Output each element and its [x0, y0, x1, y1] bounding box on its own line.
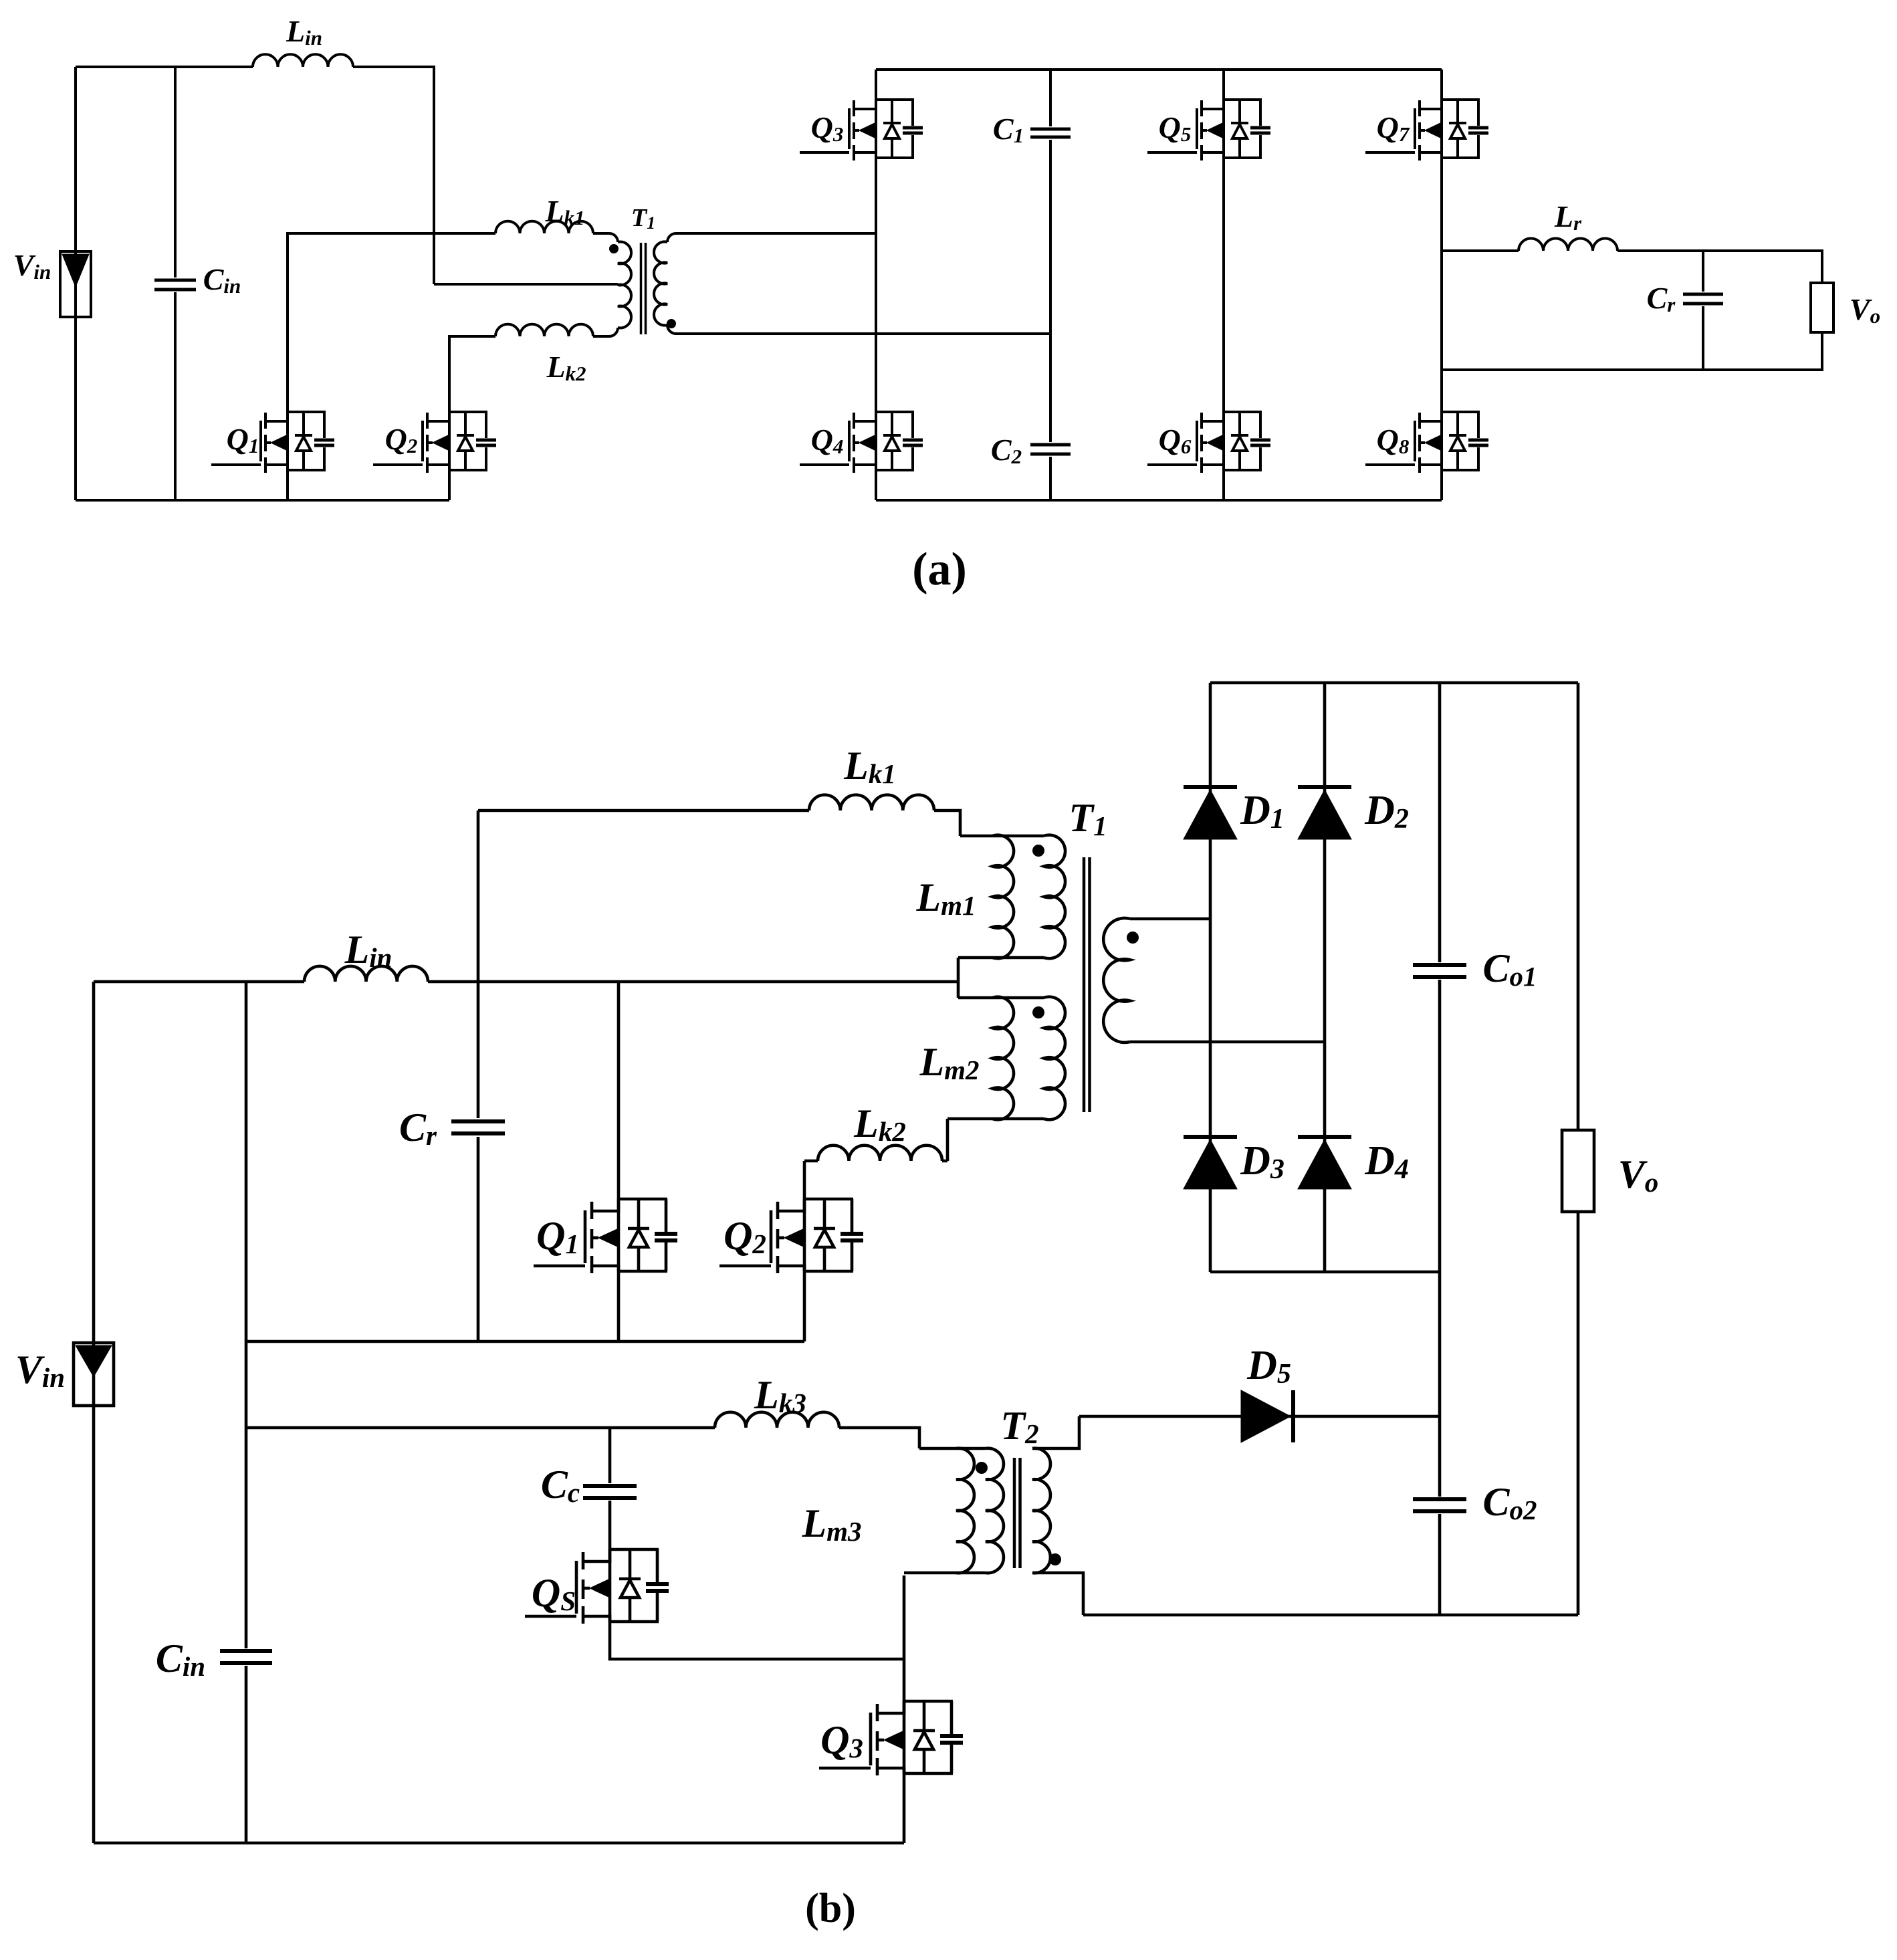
wire Vin left vertical (b) [92, 982, 96, 1343]
inductor Lr (a) [1519, 239, 1617, 251]
wire Lk2 to Q2 drain (b) [804, 1160, 818, 1163]
transistor Q3 (b) [819, 1767, 871, 1770]
dot T1 Lm1 (b) [1032, 845, 1044, 857]
wire Lk3 to T2 (b) [839, 1428, 919, 1448]
transistor Q2 (b) [719, 1265, 771, 1268]
transformer T2 (b) secondary winding [1032, 1448, 1050, 1573]
transformer T1 (a) primary winding [593, 233, 618, 242]
dot T2 Lm3 (b) [976, 1462, 988, 1474]
wire Q4 source to bus (a) [875, 470, 877, 500]
inductor Lin (b) [304, 966, 428, 982]
wire Q1-Q2 source bus (b) [246, 1340, 804, 1343]
wire rectifier top rail (b) [1210, 681, 1578, 685]
wire QS source to Q3 drain leg (b) [610, 1622, 904, 1659]
diode D3 (b) [1184, 1135, 1237, 1139]
svg-text:(a): (a) [912, 544, 967, 595]
wire output bottom return (a) [1442, 332, 1822, 370]
capacitor Cr (a) [1683, 293, 1723, 296]
transformer T1 (b) secondary winding [1130, 917, 1210, 921]
wire Q1 source to rail (a) [286, 470, 289, 500]
transistor Q4 (a) [800, 463, 849, 466]
load Vo (b) [1562, 1130, 1594, 1212]
wire top-left bus (a) Vin+ to Lin to node [76, 66, 253, 68]
transistor Q3 (a) [800, 151, 849, 154]
diode D4 (b) [1298, 1135, 1351, 1139]
wire output bottom rail (b) [1083, 1614, 1578, 1617]
dot T1 (a) primary [609, 244, 619, 253]
wire Vo bottom (b) [1577, 1212, 1580, 1615]
wire Cc branch (b) [608, 1428, 612, 1549]
wire T1 center tap jog (b) [957, 958, 960, 998]
core T1 (a) [640, 243, 643, 334]
wire D5 branch (b) [1079, 1415, 1440, 1418]
wire Vin to bottom rail (a) [74, 317, 77, 500]
wire Q7 leg upper (a) [1440, 70, 1443, 100]
wire bottom bus of bridge (a) [876, 499, 1442, 502]
wire D2-D4 leg (b) [1323, 683, 1327, 1272]
inductor Lk2 (a) [495, 324, 593, 336]
wire bridge mid to Lr (a) [1442, 249, 1519, 252]
capacitor Cin (b) [220, 1649, 272, 1653]
wire bottom rail (b) [94, 1842, 904, 1845]
wire bottom rail (a) [76, 499, 449, 502]
wire Vin left vertical (a) [74, 67, 77, 251]
capacitor Cin (a) [154, 279, 196, 282]
transformer T2 (b) winding Lm3 [919, 1447, 986, 1450]
capacitor Cr (b) [451, 1119, 505, 1123]
core T2 (b) [1013, 1458, 1016, 1568]
capacitor C2 (a) [1030, 443, 1071, 447]
wire Lin to center tap (b) [428, 980, 958, 984]
transistor QS (b) [525, 1615, 576, 1618]
transistor Q8 (a) [1365, 463, 1415, 466]
transformer T1 (b) winding Lm1 [960, 835, 1044, 838]
inductor Lin (a) [253, 54, 353, 67]
dot T1 (a) secondary [667, 319, 676, 328]
wire D1-D3 leg (b) [1209, 683, 1212, 1272]
dot T2 secondary (b) [1049, 1553, 1061, 1565]
inductor Lk1 (a) [495, 221, 593, 233]
wire Q3 source to rail (b) [903, 1773, 906, 1843]
wire Q3 leg upper (a) [875, 70, 877, 100]
diode D5 (b) [1241, 1390, 1291, 1442]
capacitor Co1 (b) [1413, 963, 1466, 967]
diode D2 (b) [1298, 785, 1351, 789]
wire Co2 stubs (b) [1438, 1416, 1442, 1615]
wire Q6 source to bus (a) [1222, 470, 1225, 500]
wire Lm2 to Lk2 (b) [942, 1119, 947, 1161]
wire Lk1 feed (b) [478, 809, 809, 812]
wire Q1 drain (b) [617, 982, 621, 1199]
source Vin (b) [74, 1343, 114, 1406]
wire T1 secondary bottom to C-leg (a) [676, 332, 1050, 335]
inductor Lk1 (b) [809, 795, 934, 810]
wire left dropper vertical (b) [245, 982, 248, 1843]
wire Cin vertical (a) [174, 67, 177, 500]
wire Q5 leg upper (a) [1222, 70, 1225, 100]
transistor Q2 (a) [373, 463, 423, 466]
wire Lr to output corner (a) [1617, 251, 1822, 283]
wire Co1 leg (b) [1438, 683, 1442, 1416]
wire Lin input (b) [94, 980, 304, 984]
wire Cr branch (b) [477, 810, 480, 1341]
wire Lin right to vertical drop (a) [353, 67, 434, 284]
transformer T1 (a) secondary winding [667, 233, 676, 242]
source Vin (a) [60, 251, 91, 317]
capacitor Co2 (b) [1413, 1497, 1466, 1501]
transistor Q5 (a) [1147, 151, 1197, 154]
capacitor C1 (a) [1030, 128, 1071, 131]
wire Q5-Q6 mid leg (a) [1222, 158, 1225, 412]
wire Q3 drain leg (b) [903, 1575, 906, 1701]
wire Q8 source to bus (a) [1440, 470, 1443, 500]
wire Q2 source to rail (a) [448, 470, 451, 500]
wire Vo leg (b) [1577, 683, 1580, 1130]
transistor Q7 (a) [1365, 151, 1415, 154]
wire Lk3 inductor (b) [715, 1412, 839, 1428]
svg-text:(b): (b) [805, 1886, 856, 1931]
wire top bus of bridge (a) [876, 68, 1442, 71]
diode D1 (b) [1184, 785, 1237, 789]
inductor Lk2 (b) [818, 1146, 942, 1161]
capacitor Cc (b) [583, 1484, 637, 1488]
wire Q1 source (b) [617, 1271, 621, 1341]
wire C-leg vertical (a) [1049, 70, 1052, 500]
wire Q3-Q4 mid leg (a) [875, 158, 877, 412]
wire center-tap feed (a) [434, 283, 618, 286]
wire Lk1 to T1 primary top (b) [934, 810, 960, 836]
wire Q1 drain to Lk1 node (a) [288, 233, 495, 412]
wire Q7-Q8 mid leg (a) [1440, 158, 1443, 412]
transistor Q1 (b) [534, 1265, 585, 1268]
load Vo (a) [1811, 283, 1833, 332]
dot T1 Lm2 (b) [1032, 1006, 1044, 1018]
wire Vin bottom to rail (b) [92, 1406, 96, 1843]
wire rectifier bottom rail (b) [1210, 1271, 1440, 1274]
wire Q2 drain to Lk2 (a) [449, 336, 495, 412]
transformer T1 (b) winding Lm2 [958, 996, 1044, 1000]
dot T1 secondary (b) [1127, 932, 1139, 944]
transistor Q1 (a) [211, 463, 261, 466]
transistor Q6 (a) [1147, 463, 1197, 466]
wire T1 secondary top to bridge (a) [676, 232, 876, 235]
wire Lk3 feed bus (b) [246, 1426, 715, 1430]
wire Cr branch (a) [1702, 251, 1704, 370]
wire Q2 source (b) [803, 1271, 806, 1341]
core T1 (b) [1083, 857, 1086, 1112]
